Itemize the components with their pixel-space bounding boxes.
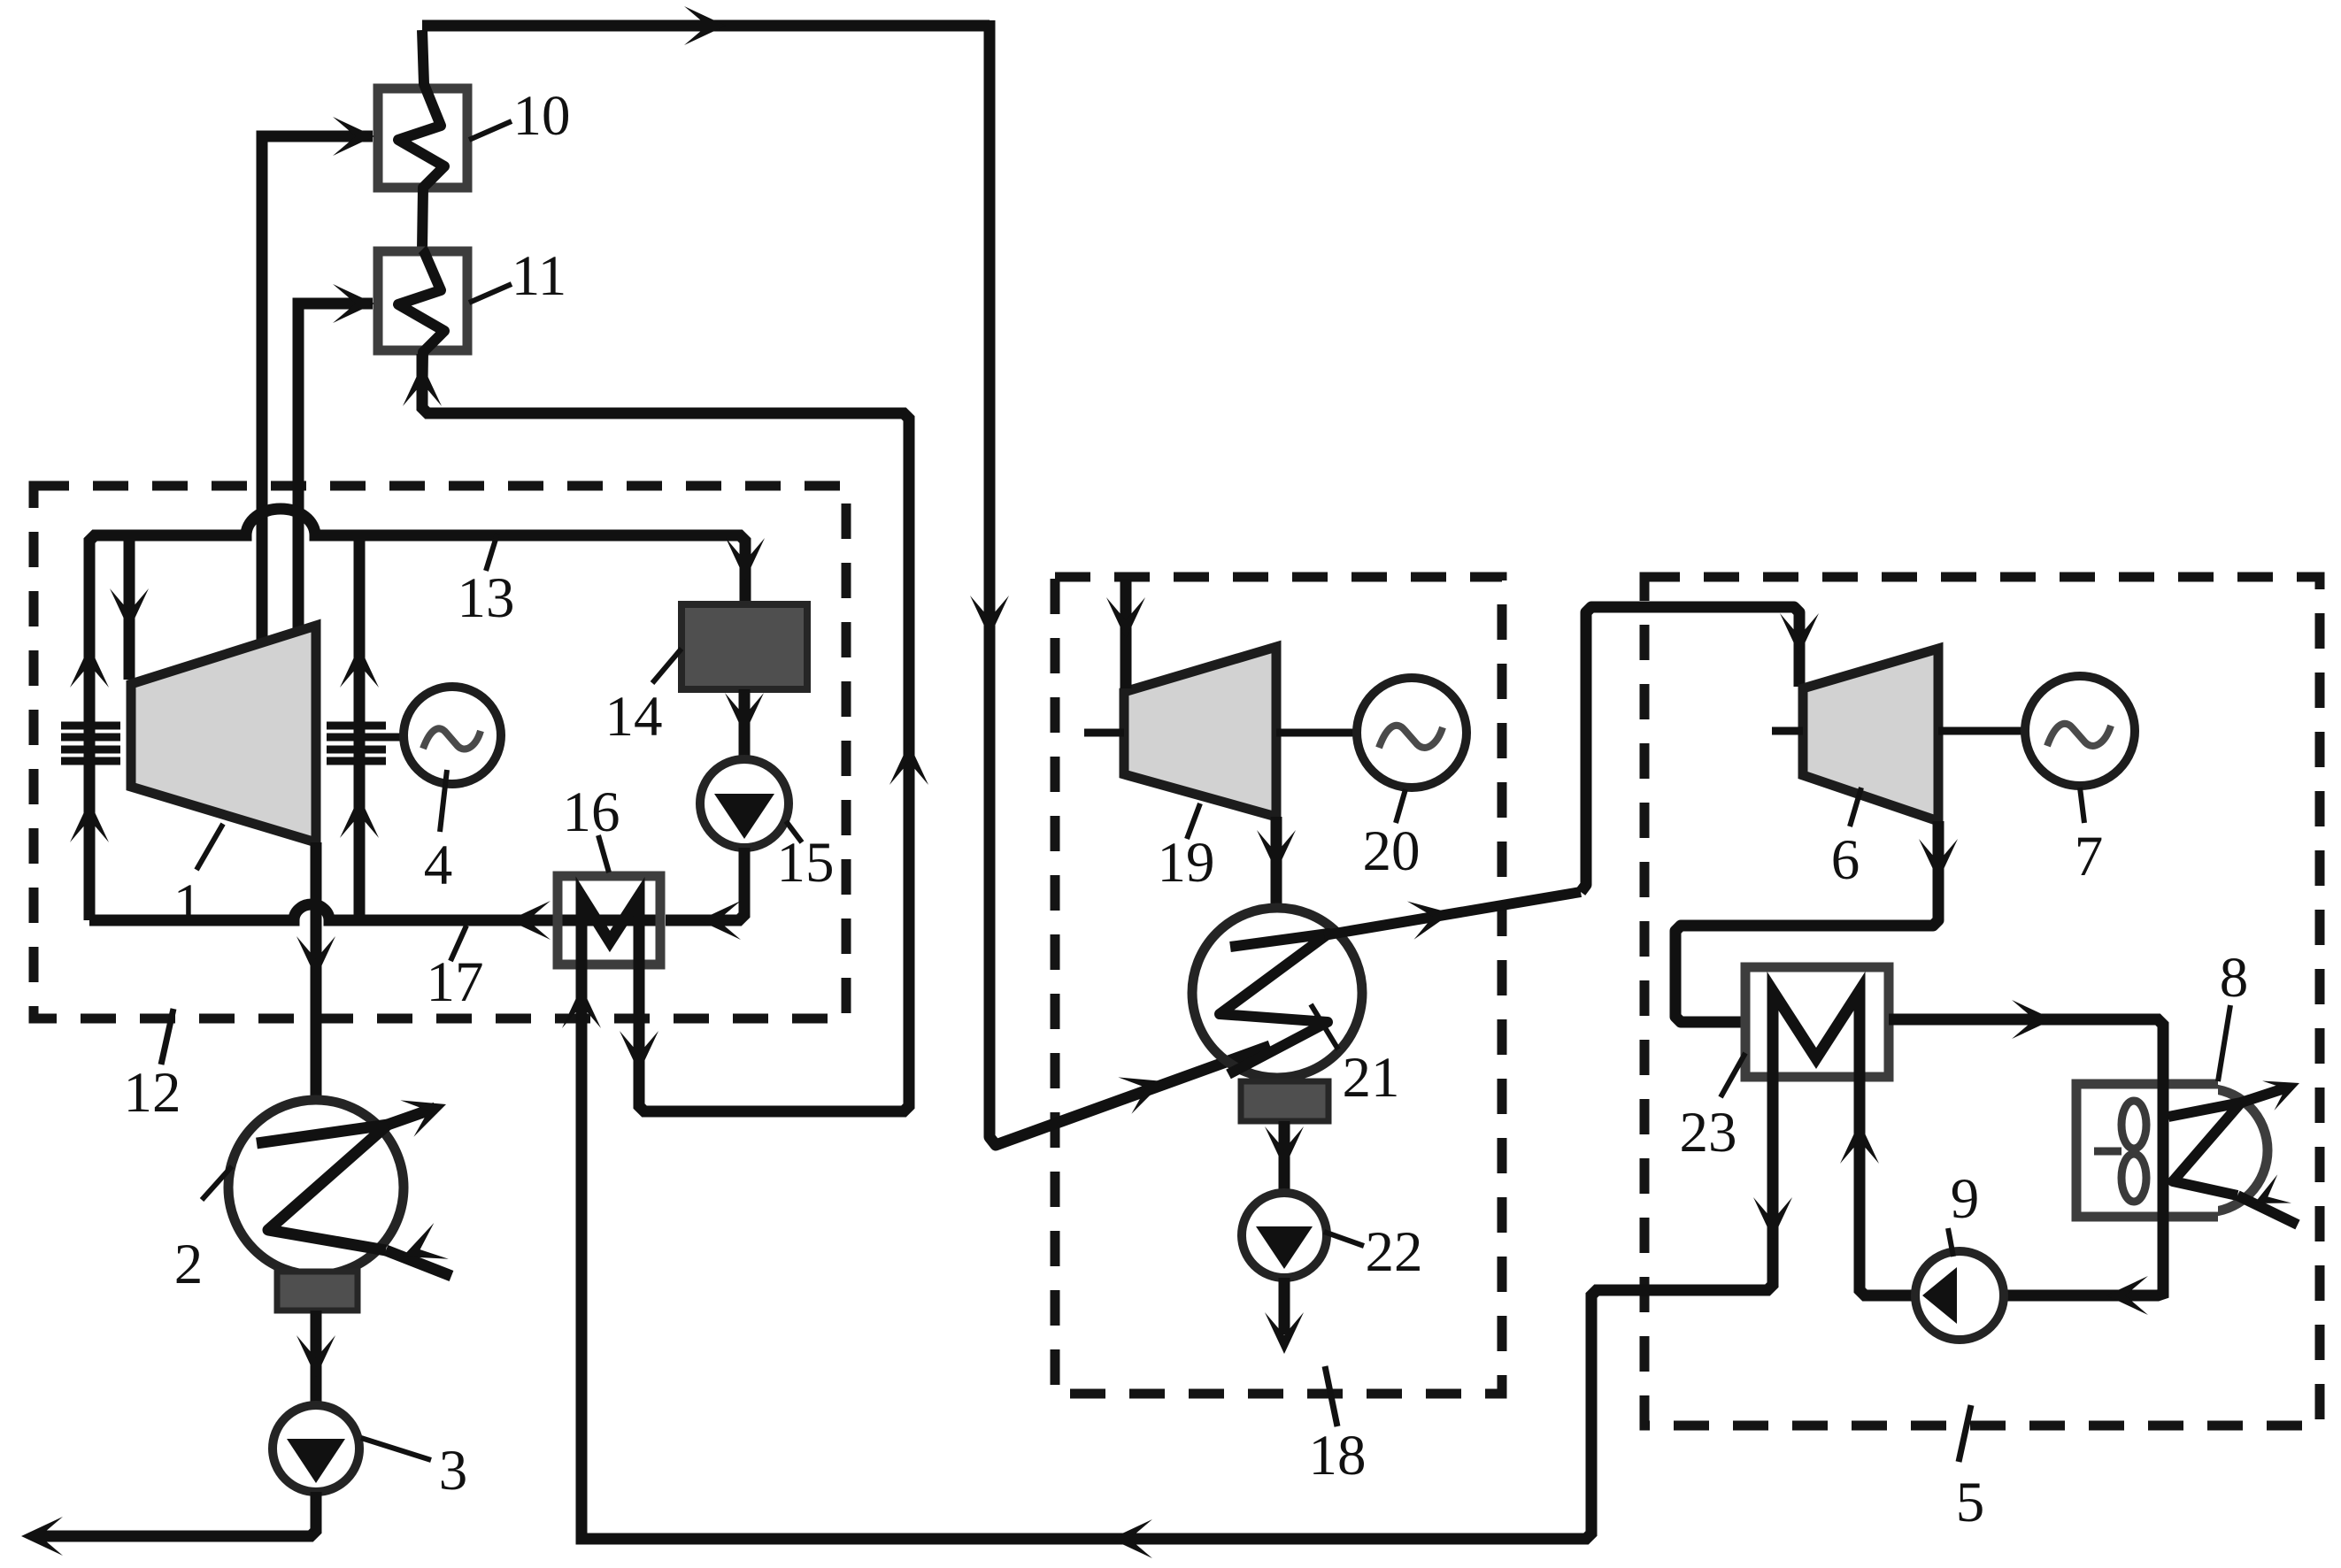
label leader 19 — [1187, 803, 1200, 839]
dashed boundary box 5 (second ORC unit) — [1644, 577, 2320, 1426]
label leader 6 — [1850, 788, 1861, 826]
label leader 8 — [2218, 1005, 2230, 1081]
label leader 16 — [598, 835, 609, 872]
svg-text:6: 6 — [1831, 828, 1860, 892]
wire right riser x406 (bottom loop to line 13) — [354, 538, 366, 920]
turbine 6 — [1803, 649, 1938, 821]
pump 3 triangle — [287, 1439, 345, 1483]
air cooled condenser 8 coil circle — [2144, 1088, 2268, 1212]
wire bottom loop through HX16 with bridge over exhaust — [89, 904, 660, 920]
generator 20 sine glyph — [1379, 726, 1443, 748]
pump 15 circle — [700, 759, 789, 848]
generator 4 circle — [404, 687, 501, 784]
svg-text:17: 17 — [427, 950, 484, 1014]
wire HX23 outlet to condenser 8 — [1889, 1019, 2163, 1295]
label tick 12 — [161, 1009, 173, 1065]
svg-text:19: 19 — [1158, 831, 1215, 895]
heat exchanger 23 M tube — [1773, 991, 1860, 1093]
air cooled condenser 8 fan box cover — [2072, 1080, 2218, 1221]
wire pump 9 to HX23 right leg — [1860, 1077, 1915, 1295]
shaft turbine 19 to generator 20 — [1276, 729, 1357, 737]
svg-text:18: 18 — [1309, 1424, 1367, 1487]
wire turbine 1 exhaust to condenser 2 — [311, 842, 322, 1103]
dashed boundary box 18 (first ORC unit) — [1055, 577, 1502, 1394]
svg-text:16: 16 — [563, 780, 620, 844]
wire vertical through condenser 8 — [2158, 1023, 2169, 1294]
condenser 2 hotwell — [277, 1272, 358, 1311]
wire pump 22 discharge down — [1279, 1278, 1290, 1334]
svg-text:13: 13 — [458, 566, 515, 630]
svg-text:11: 11 — [512, 244, 567, 308]
heat exchanger 21 double zigzag — [1220, 934, 1328, 1074]
heat exchanger 23 box — [1745, 967, 1889, 1077]
label leader 3 — [361, 1438, 431, 1460]
wire turbine bleed to HX11 — [298, 304, 373, 634]
wire HX21 outlet riser to turbine 6 — [1581, 607, 1799, 892]
heat exchanger 10 box — [378, 88, 467, 188]
wire downcomer to HX21 inlet diagonal — [990, 20, 1270, 1145]
svg-text:4: 4 — [424, 834, 453, 897]
svg-text:9: 9 — [1951, 1167, 1980, 1231]
turbine 19 — [1124, 647, 1276, 817]
label leader 15 — [786, 821, 802, 842]
wire turbine 6 exhaust to HX23 — [1675, 821, 1938, 1022]
svg-text:20: 20 — [1363, 819, 1421, 883]
heat exchanger 10 zigzag tube — [398, 30, 444, 250]
condenser 2 inlet arrow line — [386, 1250, 451, 1276]
wire turbine 19 inlet stub — [1120, 580, 1132, 688]
heat exchanger 11 zigzag tube — [398, 250, 444, 409]
wire turbine 1 inlet stub — [124, 535, 135, 680]
condenser 8 outlet arrow — [2241, 1088, 2287, 1103]
shaft turbine 6 left stub — [1772, 727, 1803, 735]
condenser 2 outlet arrow line — [388, 1108, 435, 1125]
generator 20 circle — [1357, 678, 1467, 788]
generator 7 sine glyph — [2047, 724, 2111, 746]
generator 7 circle — [2025, 676, 2135, 786]
dashed boundary box 12 (steam turbine unit) — [34, 486, 846, 1018]
pump 9 circle — [1915, 1251, 2004, 1340]
heat exchanger 16 M tube — [581, 896, 639, 978]
wire left loop of turbine 1 (cold reheat) — [89, 535, 129, 920]
air cooled condenser 8 fan box border — [2076, 1084, 2218, 1217]
svg-text:12: 12 — [124, 1061, 181, 1125]
turbine 1 — [131, 626, 316, 842]
svg-text:15: 15 — [777, 831, 835, 895]
svg-text:2: 2 — [174, 1233, 204, 1296]
svg-text:10: 10 — [513, 84, 571, 148]
heat exchanger 11 box — [378, 251, 467, 350]
label leader 21 — [1311, 1004, 1338, 1049]
component 14 (deaerator tank) — [682, 604, 807, 689]
label leader 22 — [1324, 1232, 1364, 1246]
heat exchanger 21 circle — [1192, 908, 1362, 1078]
pump 9 triangle — [1922, 1267, 1957, 1324]
pump 3 circle — [273, 1405, 359, 1492]
wire HX21 to pump 22 — [1279, 1121, 1290, 1192]
pump 22 circle — [1242, 1193, 1327, 1278]
wire top header from node above HX10 to downcomer — [422, 20, 990, 32]
shaft turbine 1 to generator 4 — [386, 734, 404, 742]
label leader 13 — [486, 534, 497, 571]
wire condensate return riser (HX16 to HX11) — [422, 354, 909, 1111]
heat exchanger 16 box — [558, 876, 660, 965]
heat exchanger 21 outlet diagonal — [1324, 892, 1581, 935]
svg-text:3: 3 — [439, 1439, 468, 1503]
svg-text:23: 23 — [1680, 1101, 1737, 1164]
condenser 2 circle — [228, 1100, 404, 1275]
label leader 17 — [450, 926, 466, 961]
condenser 2 zigzag — [257, 1125, 388, 1250]
svg-text:5: 5 — [1956, 1471, 1985, 1534]
svg-text:21: 21 — [1343, 1046, 1400, 1110]
wire 14 to pump 15 — [739, 689, 751, 757]
label leader 7 — [2080, 788, 2084, 823]
wire pump 15 to HX16 — [666, 848, 744, 920]
label leader 23 — [1721, 1053, 1745, 1097]
generator 4 sine glyph — [423, 728, 481, 749]
wire pump 3 discharge to left edge — [35, 1492, 316, 1536]
wire top line 13 with bridge over bleed lines — [129, 509, 745, 604]
pump 15 triangle — [714, 794, 774, 839]
condenser 8 fan shaft — [2094, 1148, 2122, 1156]
label leader 11 — [469, 284, 512, 303]
turbine 1 right shaft gland seals — [327, 722, 386, 730]
label leader 10 — [469, 121, 512, 140]
wire condenser 2 to pump 3 — [311, 1311, 322, 1403]
condenser 8 zigzag — [2168, 1103, 2241, 1195]
label leader 2 — [202, 1166, 232, 1200]
pump 22 triangle — [1256, 1226, 1313, 1269]
label tick 5 — [1959, 1405, 1971, 1462]
label leader 1 — [196, 824, 223, 870]
turbine 1 left shaft gland seals — [61, 722, 120, 730]
condenser 8 fan blades — [2122, 1101, 2146, 1149]
label leader 14 — [652, 649, 682, 683]
svg-text:7: 7 — [2075, 825, 2104, 888]
svg-text:8: 8 — [2220, 946, 2249, 1010]
svg-text:14: 14 — [605, 685, 663, 749]
shaft turbine 6 to generator 7 — [1938, 727, 2025, 735]
wire HX23 left leg to bottom return — [581, 970, 1773, 1539]
heat exchanger 21 hotwell — [1241, 1081, 1328, 1121]
label leader 4 — [440, 770, 447, 832]
label leader 20 — [1396, 789, 1405, 823]
label leader 9 — [1948, 1228, 1953, 1257]
shaft turbine 19 left stub — [1084, 729, 1124, 737]
svg-text:1: 1 — [173, 872, 203, 936]
wire turbine 19 exhaust to HX21 — [1271, 817, 1282, 906]
condenser 8 inlet arrow — [2237, 1195, 2298, 1225]
wire turbine bleed to HX10 — [262, 136, 373, 646]
svg-text:22: 22 — [1366, 1220, 1423, 1284]
label tick 18 — [1325, 1366, 1337, 1426]
